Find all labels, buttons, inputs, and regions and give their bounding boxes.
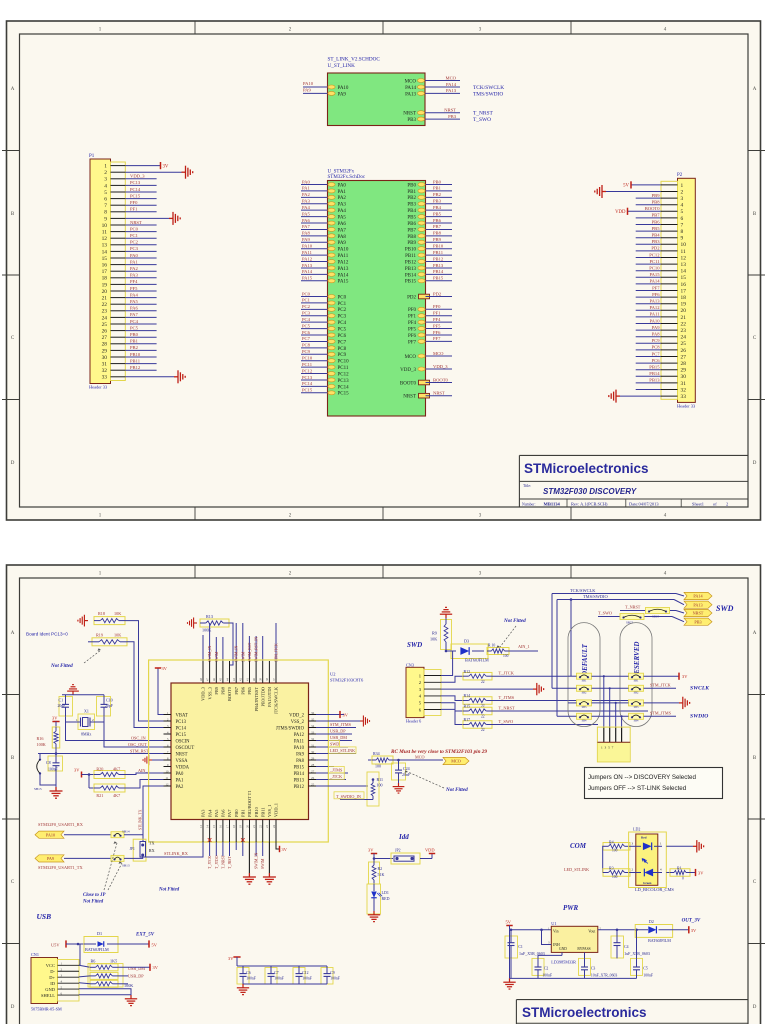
svg-text:R17: R17 — [464, 717, 471, 722]
svg-text:16: 16 — [102, 263, 108, 269]
svg-text:40: 40 — [252, 678, 256, 682]
svg-text:SHELL: SHELL — [41, 993, 55, 998]
svg-text:PA9: PA9 — [47, 856, 54, 861]
wire jumper row3 — [568, 702, 577, 704]
svg-text:C3: C3 — [591, 966, 596, 970]
svg-text:OUT_3V: OUT_3V — [682, 919, 701, 924]
svg-text:SB3: SB3 — [634, 706, 639, 709]
wire P1 pin26 — [125, 330, 156, 332]
svg-text:ST_LINK_V2.SCHDOC: ST_LINK_V2.SCHDOC — [328, 57, 381, 63]
svg-text:Jumpers OFF --> ST-LINK Select: Jumpers OFF --> ST-LINK Selected — [588, 785, 687, 792]
svg-text:PB4: PB4 — [652, 233, 661, 238]
svg-text:STM_JTMS: STM_JTMS — [650, 711, 672, 716]
wire P1 pin30 — [125, 356, 156, 358]
svg-text:100nF: 100nF — [274, 977, 284, 981]
svg-text:35: 35 — [311, 717, 315, 721]
svg-text:10K: 10K — [430, 637, 437, 642]
no-ERC mark — [208, 838, 245, 842]
node LED_STLINK — [329, 747, 357, 753]
svg-text:27: 27 — [102, 335, 108, 341]
svg-text:T_JTMS: T_JTMS — [499, 695, 515, 700]
svg-text:PC7: PC7 — [338, 340, 347, 345]
svg-text:PB2: PB2 — [433, 192, 442, 197]
svg-text:D3: D3 — [464, 639, 469, 644]
capacitor C12 — [293, 966, 312, 984]
svg-text:C5: C5 — [643, 966, 648, 970]
wire OSC_OUT — [104, 717, 164, 747]
svg-text:A: A — [753, 87, 757, 92]
svg-text:A: A — [11, 87, 15, 92]
svg-text:PA6: PA6 — [338, 222, 347, 227]
wire T_JTMS — [492, 700, 640, 702]
svg-text:PF5: PF5 — [433, 323, 441, 328]
wire Vout — [598, 929, 648, 931]
svg-text:22: 22 — [481, 715, 485, 719]
svg-text:USB_DM: USB_DM — [128, 966, 145, 971]
svg-text:PA9: PA9 — [302, 237, 310, 242]
svg-text:Close to JP: Close to JP — [83, 893, 105, 898]
svg-text:100nF: 100nF — [542, 973, 552, 977]
svg-text:PA14: PA14 — [693, 594, 703, 599]
power VDD — [627, 208, 629, 215]
wire STLINK_TX riser — [143, 786, 164, 842]
svg-text:R13: R13 — [206, 614, 213, 619]
ground — [67, 685, 79, 695]
resistor USB_DM — [90, 972, 118, 979]
svg-text:BAT60JFILM: BAT60JFILM — [465, 658, 489, 663]
power 5V — [630, 181, 632, 188]
svg-text:STMicroelectronics: STMicroelectronics — [522, 1005, 647, 1020]
svg-text:R9: R9 — [432, 631, 437, 636]
wire T_JTCK — [492, 675, 568, 677]
svg-text:PC1: PC1 — [338, 302, 347, 307]
wire OSC_IN — [66, 717, 164, 741]
svg-text:T_JTCK: T_JTCK — [208, 855, 212, 869]
svg-text:PA4: PA4 — [338, 209, 347, 214]
svg-text:PB10: PB10 — [405, 248, 417, 253]
wire PA9 to U_ST_LINK — [303, 92, 328, 94]
wire R19 to PC14 — [127, 642, 164, 728]
svg-text:MCO: MCO — [405, 355, 417, 360]
svg-text:100nF: 100nF — [643, 973, 653, 977]
svg-text:PA3: PA3 — [201, 809, 206, 817]
solder bridge SB1 DEFAULT — [577, 685, 592, 691]
svg-text:U2: U2 — [330, 672, 336, 677]
svg-text:PF6: PF6 — [408, 334, 417, 339]
svg-text:PC14: PC14 — [130, 187, 141, 192]
wire MCU top pin — [222, 637, 224, 661]
wire R18 to PC13 — [125, 621, 164, 721]
svg-text:RC Must be very close to STM32: RC Must be very close to STM32F103 pin 2… — [391, 749, 487, 755]
wire PA9 to SB13 — [64, 857, 111, 859]
svg-text:GND: GND — [559, 947, 567, 951]
svg-text:P1: P1 — [89, 154, 95, 159]
svg-text:PA15: PA15 — [649, 272, 660, 277]
svg-text:5V: 5V — [152, 942, 158, 947]
wire P2 pin33 to ground — [620, 395, 661, 397]
svg-text:PD2: PD2 — [433, 291, 442, 296]
svg-text:USB_DP: USB_DP — [330, 729, 346, 734]
power 3V — [688, 926, 690, 933]
svg-text:PB0: PB0 — [234, 809, 239, 817]
svg-text:6: 6 — [681, 216, 684, 222]
capacitor C5 — [631, 930, 654, 979]
svg-text:6: 6 — [104, 197, 107, 203]
wire U2 right — [316, 720, 360, 722]
ground — [169, 212, 180, 225]
svg-text:PA3: PA3 — [130, 273, 138, 278]
svg-text:PA10: PA10 — [338, 248, 349, 253]
resistor R18 — [94, 611, 125, 625]
svg-text:BOOT0: BOOT0 — [400, 381, 417, 386]
svg-text:VDD: VDD — [615, 210, 626, 215]
regulator U1 LD3985M33R — [548, 921, 602, 965]
svg-text:PC10: PC10 — [649, 266, 660, 271]
svg-text:PF7: PF7 — [408, 340, 417, 345]
svg-text:LD_BICOLOR_CMS: LD_BICOLOR_CMS — [635, 887, 674, 892]
svg-text:43: 43 — [232, 678, 236, 682]
svg-text:PB0: PB0 — [130, 332, 139, 337]
svg-text:MB1134: MB1134 — [544, 502, 561, 507]
svg-text:STM32Fx.SchDoc: STM32Fx.SchDoc — [328, 175, 366, 180]
svg-text:16: 16 — [219, 825, 223, 829]
svg-text:PB13: PB13 — [405, 267, 417, 272]
capacitor C8 — [46, 754, 63, 776]
svg-text:JTCK/SWCLK: JTCK/SWCLK — [274, 686, 279, 714]
svg-text:15: 15 — [102, 256, 108, 262]
wire AIN_1 — [509, 650, 538, 652]
svg-text:PC5: PC5 — [302, 323, 311, 328]
svg-text:23: 23 — [265, 825, 269, 829]
wire jumper row1 — [568, 675, 577, 677]
svg-text:R19: R19 — [96, 633, 103, 638]
svg-text:26: 26 — [102, 329, 108, 335]
svg-text:STM_JTCK: STM_JTCK — [275, 643, 279, 662]
svg-text:22: 22 — [259, 825, 263, 829]
svg-text:STM_JTMS: STM_JTMS — [330, 722, 352, 727]
svg-text:STM32F0_USART1_TX: STM32F0_USART1_TX — [38, 865, 83, 870]
svg-text:PA5: PA5 — [302, 211, 310, 216]
wire MCU top pin — [275, 623, 277, 661]
svg-text:PA5: PA5 — [214, 809, 219, 817]
svg-text:PB4/JNTRST: PB4/JNTRST — [254, 687, 259, 712]
resistor R6 — [79, 958, 123, 987]
ground — [263, 873, 276, 884]
svg-text:R1: R1 — [677, 866, 682, 871]
svg-text:PB3: PB3 — [433, 199, 442, 204]
svg-text:PA6: PA6 — [130, 306, 138, 311]
ground — [182, 166, 193, 179]
node _JTMS — [329, 766, 345, 772]
svg-text:BYPASS: BYPASS — [577, 947, 590, 951]
svg-text:PB7: PB7 — [433, 224, 442, 229]
svg-text:R2: R2 — [378, 866, 383, 871]
svg-text:D: D — [753, 461, 757, 466]
wire T_NRST — [492, 710, 648, 712]
wire P1 pin5 — [125, 191, 156, 193]
svg-text:5075BMR-05-SM: 5075BMR-05-SM — [31, 1007, 62, 1012]
svg-text:R11: R11 — [377, 777, 384, 782]
svg-text:U5V: U5V — [51, 942, 60, 947]
svg-text:13: 13 — [199, 825, 203, 829]
connector P2 Header 33 — [661, 173, 696, 409]
svg-text:PA7: PA7 — [130, 312, 138, 317]
svg-text:PC8: PC8 — [338, 347, 347, 352]
svg-text:PB5: PB5 — [247, 686, 252, 694]
svg-text:C10: C10 — [106, 698, 113, 703]
svg-text:R 10: R 10 — [488, 644, 495, 648]
svg-text:PC9: PC9 — [338, 353, 347, 358]
svg-text:31: 31 — [311, 743, 315, 747]
svg-text:8: 8 — [681, 229, 684, 235]
wire MCU bottom pin — [255, 842, 257, 856]
wire P1 pin9 to ground — [125, 217, 169, 219]
svg-text:PA10: PA10 — [46, 832, 55, 837]
ground — [533, 683, 544, 695]
svg-text:2: 2 — [726, 501, 728, 506]
wire MCU top pin — [248, 636, 250, 661]
wire CN3 pin4 to R14 — [441, 696, 463, 701]
svg-text:T_JTCK: T_JTCK — [499, 671, 515, 676]
port NRST — [684, 609, 712, 616]
svg-text:22: 22 — [681, 321, 687, 327]
svg-text:PF6: PF6 — [652, 292, 660, 297]
svg-text:PC10: PC10 — [302, 356, 313, 361]
svg-text:47: 47 — [205, 678, 209, 682]
solder bridge SB3 DEFAULT — [577, 713, 592, 719]
svg-text:44: 44 — [225, 678, 229, 682]
svg-text:PC0: PC0 — [338, 295, 347, 300]
wire MCU bottom pin — [215, 842, 217, 856]
svg-text:Jumpers ON --> DISCOVERY Sele: Jumpers ON --> DISCOVERY Selected — [588, 774, 696, 781]
wire D1 to 5V — [118, 943, 149, 945]
svg-text:A: A — [753, 631, 757, 636]
svg-text:PA13: PA13 — [302, 263, 313, 268]
svg-text:JTMS/SWDIO: JTMS/SWDIO — [276, 726, 305, 731]
svg-text:PB10: PB10 — [254, 806, 259, 817]
svg-text:100: 100 — [612, 849, 618, 853]
svg-text:45: 45 — [219, 678, 223, 682]
wire P2 pin8 — [636, 230, 661, 232]
svg-text:19: 19 — [239, 825, 243, 829]
svg-text:14: 14 — [205, 825, 209, 829]
svg-text:18: 18 — [232, 825, 236, 829]
svg-text:PA13: PA13 — [649, 299, 660, 304]
wire PA14 from U_ST_LINK — [425, 86, 460, 88]
svg-text:30: 30 — [102, 355, 108, 361]
ground — [595, 185, 606, 198]
svg-text:LED_STLINK: LED_STLINK — [330, 748, 355, 753]
svg-text:PB5: PB5 — [652, 226, 661, 231]
svg-text:PA2: PA2 — [338, 196, 347, 201]
wire MCU top pin — [262, 636, 264, 661]
wire MCU bottom pin — [222, 842, 224, 856]
svg-text:17: 17 — [681, 288, 687, 294]
svg-text:PD2: PD2 — [407, 295, 416, 300]
svg-text:PA12: PA12 — [338, 260, 349, 265]
wire P2 pin22 — [636, 323, 661, 325]
wire TMS/SWDIO — [557, 599, 674, 601]
svg-text:PB15: PB15 — [433, 276, 444, 281]
wire P1 pin2 to ground — [125, 171, 181, 173]
wire gnd rail pwr — [509, 930, 511, 979]
resistor R1 — [666, 866, 690, 881]
svg-text:VSS_3: VSS_3 — [207, 686, 212, 699]
svg-text:PB9: PB9 — [652, 193, 661, 198]
svg-text:AIN_1: AIN_1 — [518, 644, 530, 649]
svg-text:NRST: NRST — [130, 220, 142, 225]
sheet symbol U_ST_LINK — [328, 57, 426, 126]
wire osc top rail — [62, 694, 104, 696]
svg-text:3V: 3V — [698, 870, 704, 875]
wire riser to jumper row1 — [570, 600, 572, 677]
svg-text:U_STM32Fx: U_STM32Fx — [328, 170, 355, 175]
jumper block DEFAULT oval — [568, 623, 600, 727]
node labels PB0-PB15 / PD2 / PF / MCO right pins — [400, 179, 452, 399]
port PA14 — [684, 592, 712, 599]
port PA10 — [35, 831, 64, 838]
svg-text:PA9: PA9 — [338, 92, 347, 97]
svg-text:PB11: PB11 — [405, 254, 416, 259]
svg-text:PA14: PA14 — [649, 279, 660, 284]
svg-text:PC4: PC4 — [338, 321, 347, 326]
svg-text:100: 100 — [612, 875, 618, 879]
svg-text:3V: 3V — [153, 965, 159, 970]
svg-text:PF0: PF0 — [408, 308, 417, 313]
svg-text:PA14: PA14 — [302, 269, 313, 274]
svg-text:PA15: PA15 — [302, 276, 313, 281]
svg-text:PB11: PB11 — [130, 358, 141, 363]
svg-text:PA2: PA2 — [176, 785, 185, 790]
svg-text:33: 33 — [681, 394, 687, 400]
svg-text:48: 48 — [199, 678, 203, 682]
svg-text:OSCIN: OSCIN — [176, 739, 191, 744]
svg-text:23: 23 — [681, 328, 687, 334]
node USB_DP — [118, 983, 128, 985]
svg-text:BAT60JFILM: BAT60JFILM — [648, 938, 671, 943]
wire P1 pin8 — [125, 211, 156, 213]
svg-text:SB2: SB2 — [582, 692, 587, 695]
svg-text:LD3985M33R: LD3985M33R — [551, 960, 576, 965]
svg-text:10nF_X7R_0603: 10nF_X7R_0603 — [591, 973, 617, 977]
svg-text:20pF: 20pF — [58, 704, 66, 708]
svg-text:100: 100 — [503, 654, 509, 658]
wire P2 pin28 — [636, 362, 661, 364]
svg-text:PA7: PA7 — [338, 228, 347, 233]
svg-text:24: 24 — [102, 315, 108, 321]
svg-text:29: 29 — [681, 368, 687, 374]
wire U2 right — [316, 785, 368, 787]
wire P1 pin25 — [125, 323, 156, 325]
svg-text:ID: ID — [50, 981, 55, 986]
svg-text:PC13: PC13 — [130, 180, 141, 185]
svg-text:PC2: PC2 — [302, 304, 311, 309]
svg-text:PB8: PB8 — [652, 200, 661, 205]
LED LD2 bicolor — [629, 827, 675, 893]
svg-text:29: 29 — [311, 756, 315, 760]
svg-text:38: 38 — [265, 678, 269, 682]
svg-text:SWD: SWD — [716, 604, 734, 613]
svg-text:13: 13 — [102, 243, 108, 249]
svg-text:NRST: NRST — [693, 611, 704, 616]
svg-text:16: 16 — [681, 282, 687, 288]
svg-text:PC11: PC11 — [338, 366, 349, 371]
svg-text:PA10: PA10 — [338, 86, 349, 91]
wire U2 right — [316, 753, 356, 755]
svg-text:PC10: PC10 — [338, 360, 350, 365]
svg-text:_JTCK: _JTCK — [329, 774, 342, 779]
wire P2 pin25 — [636, 342, 661, 344]
svg-text:PB8: PB8 — [221, 686, 226, 694]
wire MCU bottom pin — [209, 842, 211, 856]
ground — [679, 697, 690, 709]
solder bridge SB2 DEFAULT — [577, 700, 592, 706]
node labels U2 left pins — [164, 711, 195, 790]
svg-text:R3: R3 — [609, 866, 614, 871]
ground — [237, 984, 249, 995]
wire JP2 to VDD — [420, 858, 432, 860]
wire P1 pin22 — [125, 303, 156, 305]
svg-text:26: 26 — [311, 776, 315, 780]
svg-text:PC9: PC9 — [652, 338, 661, 343]
svg-text:10: 10 — [681, 242, 687, 248]
node labels U2 bottom pins — [199, 790, 279, 842]
resistor R34 — [368, 751, 393, 769]
svg-text:21: 21 — [681, 315, 687, 321]
svg-text:C1: C1 — [59, 698, 64, 703]
svg-text:Sheet1: Sheet1 — [692, 501, 704, 506]
capacitor C4 — [611, 930, 650, 959]
svg-text:PA14: PA14 — [338, 273, 349, 278]
svg-text:1: 1 — [681, 183, 684, 189]
wire MCU bottom pin — [262, 842, 264, 856]
svg-text:NRST: NRST — [176, 752, 188, 757]
svg-text:25: 25 — [102, 322, 108, 328]
svg-text:PC13: PC13 — [302, 375, 313, 380]
LED LD1 RED — [367, 884, 390, 914]
svg-text:PB2/BOOT T1: PB2/BOOT T1 — [247, 790, 252, 817]
wire U2 right — [316, 733, 352, 735]
solder bridge SB22 — [620, 614, 644, 620]
svg-text:PB13: PB13 — [294, 778, 305, 783]
svg-text:PB14: PB14 — [294, 772, 305, 777]
svg-text:PA8: PA8 — [302, 231, 310, 236]
svg-text:PB5: PB5 — [407, 216, 416, 221]
svg-text:PB0: PB0 — [433, 179, 442, 184]
svg-text:Green: Green — [643, 881, 652, 885]
svg-text:PB12: PB12 — [130, 365, 141, 370]
svg-text:SB3: SB3 — [582, 706, 587, 709]
svg-text:0: 0 — [682, 877, 684, 881]
wire TCK/SWCLK — [552, 593, 676, 595]
svg-text:8: 8 — [104, 210, 107, 216]
svg-text:PC3: PC3 — [302, 311, 311, 316]
wire P2 pin4 — [636, 204, 661, 206]
svg-text:11: 11 — [102, 230, 107, 236]
svg-text:PB3: PB3 — [407, 118, 416, 123]
svg-text:4: 4 — [681, 203, 684, 209]
svg-text:STM32F0_USART1_RX: STM32F0_USART1_RX — [38, 822, 84, 827]
svg-text:1: 1 — [104, 164, 107, 170]
svg-text:36: 36 — [311, 711, 315, 715]
wire T_NRST to NRST port — [620, 610, 676, 612]
svg-text:20: 20 — [681, 308, 687, 314]
wire P1 pin6 — [125, 198, 156, 200]
svg-text:100nF: 100nF — [302, 977, 312, 981]
svg-text:PA11: PA11 — [294, 739, 305, 744]
svg-text:VDDA: VDDA — [176, 765, 190, 770]
svg-text:22: 22 — [102, 302, 108, 308]
